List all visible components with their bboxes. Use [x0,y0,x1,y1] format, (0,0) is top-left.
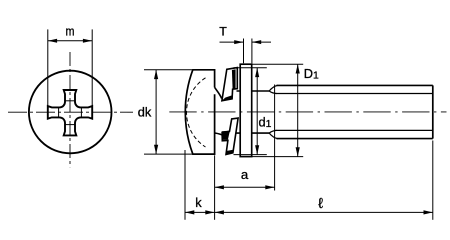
svg-text:a: a [241,167,249,182]
screw end extension line [432,141,434,220]
shank top line [237,90,270,92]
recess hidden arc in head [186,78,205,147]
neck fillet bottom [215,133,227,140]
neck fillet top [215,87,222,98]
thread taper top [269,85,277,93]
screw head outline (front view circle) [29,71,112,154]
spring washer upper bottom tip (thick) [222,95,232,101]
head face extension line [214,155,216,220]
l arrow left [215,210,224,214]
d1 arrow bottom [255,145,259,154]
recess hidden line bottom arm [65,124,75,126]
recess hidden line right arm [80,108,82,118]
m dimension arrow right [83,39,92,43]
thread minor line top [276,93,433,95]
D1 arrow top [296,64,300,73]
T dimension line left [220,41,244,43]
svg-text:k: k [195,195,202,210]
T extension line right [251,39,253,64]
D1 extension line top [252,63,303,65]
dk extension line top [144,69,192,71]
phillips recess cross [48,90,92,135]
spring washer upper split (dark) [232,69,236,89]
k arrow left [185,210,194,214]
dk arrow bottom [154,145,158,154]
pan head profile [185,70,214,154]
svg-text:m: m [66,24,75,39]
thread major line bottom [277,138,433,140]
k dimension line [185,211,215,213]
thread major line top [277,84,433,86]
m extension line right [91,29,93,107]
d1 extension line bottom [234,154,267,156]
a arrow right [265,185,274,189]
svg-text:T: T [219,25,227,39]
d1 extension line top [234,67,267,69]
spring washer lower bottom tip (thick) [226,150,233,155]
svg-text:dk: dk [138,105,152,120]
spring washer upper half [222,68,237,101]
dk arrow top [154,70,158,79]
screw end face [432,85,434,138]
T arrow right [252,40,261,44]
D1 arrow bottom [296,147,300,156]
svg-text:ℓ: ℓ [318,196,323,212]
side view centerline [169,111,446,113]
T extension line left [243,39,245,64]
m dimension line [48,40,92,42]
T arrow left [234,40,243,44]
thread minor line bottom [276,129,433,131]
m extension line left [47,29,49,107]
m dimension arrow left [48,39,57,43]
a arrow left [215,185,224,189]
d1 dimension line [256,68,258,155]
dk extension line bottom [144,153,196,155]
D1 extension line bottom [252,156,303,158]
d1 arrow top [255,68,259,77]
D1 dimension line [297,64,299,156]
vertical centerline (front view) [69,52,71,167]
k arrow right [205,210,214,214]
thread taper bottom [269,130,277,138]
horizontal centerline (front view) [8,111,133,113]
spring washer lower half [222,118,238,154]
flat washer [240,64,252,156]
T dimension line right [252,41,271,43]
spring washer lower split (dark) [222,131,230,140]
l arrow right [424,210,433,214]
dk dimension line [155,70,157,154]
l dimension line [215,211,433,213]
recess hidden line left arm [58,108,60,118]
a dimension line [215,186,275,188]
a extension line right [274,85,276,191]
shank bottom line [237,132,270,134]
head left extension line [184,150,186,220]
recess hidden line top arm [65,100,75,102]
